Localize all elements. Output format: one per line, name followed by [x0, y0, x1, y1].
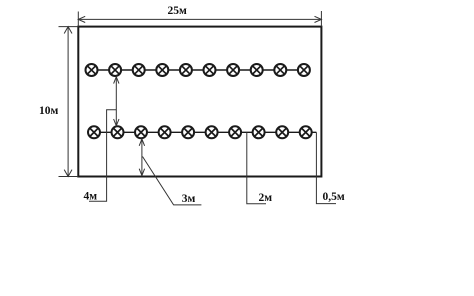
svg-text:2м: 2м: [259, 192, 273, 204]
lamp EL4 row1: [156, 64, 168, 76]
wire of lamp row 1: [92, 69, 304, 71]
svg-text:3м: 3м: [182, 193, 196, 205]
extension line left-top horizontal: [59, 26, 79, 28]
lamp EL10 row1: [298, 64, 310, 76]
lamp EL9 row1: [274, 64, 286, 76]
lamp EL12 row2: [112, 126, 124, 138]
leader line 4м: [89, 110, 116, 202]
lamp EL5 row1: [180, 64, 192, 76]
wire of lamp row 2: [94, 131, 316, 133]
double arrow 3м between row2 and bottom wall: [139, 139, 144, 176]
svg-text:25м: 25м: [168, 5, 188, 17]
lamp EL18 row2: [253, 126, 265, 138]
lamp EL11 row2: [88, 126, 100, 138]
lamp EL8 row1: [251, 64, 263, 76]
double arrow row spacing between row1 and row2: [114, 77, 119, 126]
leader line 2м: [247, 132, 266, 203]
arrowhead right of 25м dimension: [315, 16, 322, 22]
arrowhead bottom of 10м dimension: [64, 170, 72, 177]
lamp EL1 row1: [86, 64, 98, 76]
arrowhead top of 10м dimension: [64, 27, 72, 34]
lamp EL14 row2: [159, 126, 171, 138]
lamp EL20 row2: [300, 126, 312, 138]
arrowhead left of 25м dimension: [78, 16, 85, 22]
lamp EL2 row1: [109, 64, 121, 76]
svg-text:0,5м: 0,5м: [323, 191, 345, 203]
lamp EL17 row2: [229, 126, 241, 138]
lamp EL3 row1: [133, 64, 145, 76]
leader line 0,5м: [316, 132, 336, 203]
lamp EL16 row2: [206, 126, 218, 138]
extension line top-right vertical: [320, 11, 322, 27]
lamp EL19 row2: [276, 126, 288, 138]
lamp EL15 row2: [182, 126, 194, 138]
extension line left-bottom horizontal: [59, 176, 79, 178]
svg-text:10м: 10м: [39, 105, 59, 117]
room wall rectangle: [78, 27, 321, 177]
dimension line 25м: [78, 18, 321, 20]
lamp EL7 row1: [227, 64, 239, 76]
lamp EL13 row2: [135, 126, 147, 138]
leader line 3м: [143, 157, 202, 205]
svg-text:4м: 4м: [84, 191, 98, 203]
extension line top-left vertical: [77, 12, 79, 27]
dimension line 10м: [67, 27, 69, 177]
lamp EL6 row1: [204, 64, 216, 76]
